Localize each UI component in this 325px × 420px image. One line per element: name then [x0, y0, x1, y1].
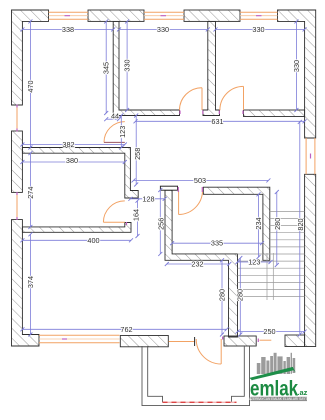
dim line 335	[172, 242, 262, 244]
svg-text:AZERBAYCAN EMLAK ELANLARI SAYT: AZERBAYCAN EMLAK ELANLARI SAYTI	[249, 397, 308, 401]
left wall piece 2	[12, 131, 23, 192]
porch outline	[142, 346, 250, 406]
emlak.az logo	[249, 353, 308, 401]
svg-text:44: 44	[111, 111, 119, 120]
right wall piece 2	[305, 174, 316, 346]
bottom windows	[39, 335, 120, 342]
partition P2 + foot cap	[203, 21, 220, 115]
window W1 top	[49, 12, 89, 19]
svg-text:631: 631	[211, 117, 223, 126]
window midlines top	[49, 15, 278, 17]
dim line 280 stairwell	[239, 258, 241, 335]
door D1 hall arc	[104, 122, 125, 143]
left wall piece 3 + bottom lip	[12, 220, 40, 346]
top wall piece 3	[184, 10, 240, 21]
dim line 338 / 330 / 330 top	[22, 28, 304, 30]
svg-text:820: 820	[296, 218, 305, 230]
walls	[12, 10, 316, 347]
red dashed mat line	[163, 401, 237, 403]
magenta window center dashes	[17, 16, 311, 342]
left wall windows	[16, 105, 18, 220]
door D2 arc	[103, 201, 124, 222]
svg-text:256: 256	[157, 218, 166, 230]
dimension end ticks	[20, 19, 306, 336]
interior wall L1 + hall vertical wall + stub	[22, 148, 138, 199]
partition P1 + room2 bottom wall	[113, 21, 179, 115]
window W2 top	[144, 12, 184, 19]
dim line 762	[22, 328, 226, 330]
svg-text:280: 280	[273, 218, 282, 230]
interior wall L2 + stub up	[22, 223, 131, 233]
svg-text:345: 345	[102, 62, 111, 74]
dim line 44	[106, 118, 119, 120]
green roof swoosh	[249, 367, 295, 380]
svg-text:380: 380	[66, 156, 78, 165]
dim line 330 room3	[295, 21, 297, 110]
dimensions	[22, 21, 304, 334]
dim line 400	[22, 239, 131, 241]
right wall window	[306, 138, 315, 174]
svg-text:382: 382	[62, 140, 74, 149]
dim line 128	[130, 198, 164, 200]
svg-text:762: 762	[120, 325, 132, 334]
dim line 234	[258, 194, 260, 257]
dim line 123 hall	[120, 116, 122, 148]
entrance door left jamb tick	[194, 337, 196, 346]
dim line 274	[29, 153, 31, 227]
dim line 631	[136, 120, 305, 122]
door D1 leaf (dark red)	[104, 141, 125, 143]
svg-text:258: 258	[133, 148, 142, 160]
svg-text:123: 123	[118, 126, 127, 138]
dim line 330 room2	[126, 21, 128, 110]
banner strip	[251, 397, 308, 401]
door jamb magenta ticks	[127, 111, 244, 340]
dim line 280 stairs flight	[276, 192, 278, 265]
svg-text:374: 374	[26, 276, 35, 288]
dim line 164	[137, 201, 139, 236]
svg-text:128: 128	[142, 194, 154, 203]
door D3 kitchen	[178, 191, 180, 215]
door D4 room2	[201, 88, 203, 110]
dim line 382	[22, 144, 124, 146]
svg-text:123: 123	[248, 257, 260, 266]
dim line 258	[135, 116, 137, 185]
kitchen door post cap	[160, 186, 177, 190]
dim line 345	[105, 21, 107, 113]
dim line 503	[134, 179, 269, 181]
skyline buildings	[257, 353, 295, 374]
svg-text:335: 335	[211, 239, 223, 248]
stairs	[238, 211, 305, 300]
top-left corner wall	[12, 10, 49, 105]
svg-text:234: 234	[254, 217, 263, 229]
dim line 256	[159, 190, 161, 254]
kitchen left wall + bottom wall + corridor wall	[165, 190, 238, 337]
svg-text:330: 330	[157, 25, 169, 34]
kitchen top wall + right wall	[203, 187, 269, 260]
room3 bottom wall	[244, 110, 305, 117]
top wall piece 2	[88, 10, 144, 21]
dim line 374	[29, 234, 31, 334]
bottom wall piece right of entry door	[224, 336, 256, 346]
svg-text:280: 280	[217, 289, 226, 301]
svg-text:503: 503	[194, 176, 206, 185]
window W3 top	[240, 12, 278, 19]
dim line 280 corridor	[221, 260, 223, 334]
dim line 250	[238, 331, 305, 333]
svg-text:400: 400	[87, 236, 99, 245]
door D5 room3	[243, 86, 245, 110]
windows top (orange)	[17, 12, 315, 343]
dimension texts	[26, 25, 305, 336]
svg-text:250: 250	[263, 327, 275, 336]
bottom wall piece center (762 block)	[120, 336, 168, 347]
doors (orange arcs)	[103, 86, 243, 364]
svg-text:232: 232	[191, 260, 203, 269]
svg-text:330: 330	[252, 25, 264, 34]
dim line 380	[22, 161, 124, 163]
bottom wall piece far right	[285, 335, 305, 347]
dim line 123 stairs	[238, 261, 271, 263]
svg-text:330: 330	[292, 60, 301, 72]
door D6 entrance	[220, 339, 222, 364]
dim line 470	[29, 21, 31, 147]
svg-text:470: 470	[26, 80, 35, 92]
svg-text:338: 338	[62, 25, 74, 34]
svg-text:.az: .az	[297, 388, 307, 397]
svg-text:280: 280	[236, 289, 245, 301]
svg-text:164: 164	[132, 209, 141, 221]
svg-text:274: 274	[26, 187, 35, 199]
dim line 232	[167, 263, 230, 265]
top-right corner wall	[278, 10, 316, 138]
dim line 820	[299, 122, 301, 335]
svg-text:330: 330	[123, 59, 132, 71]
